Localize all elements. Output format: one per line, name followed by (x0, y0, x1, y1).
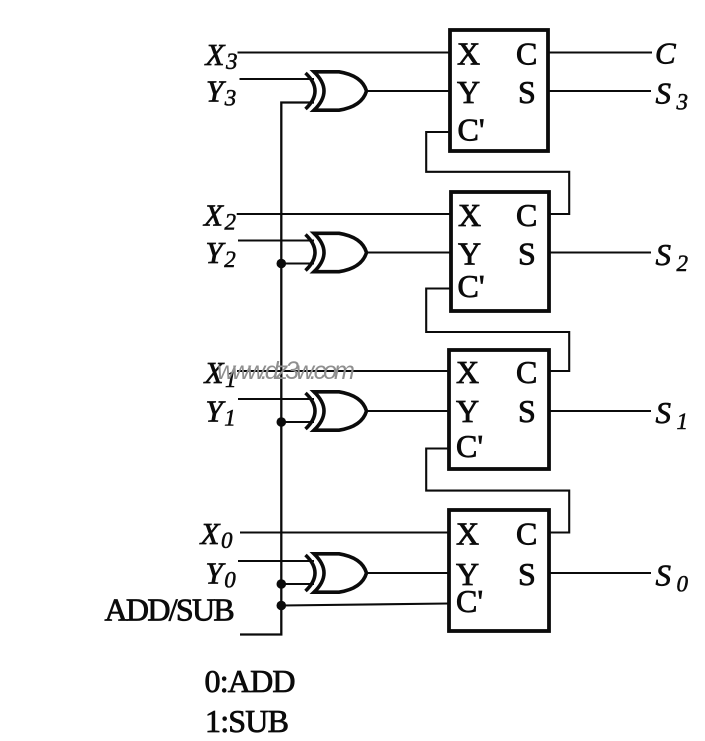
svg-text:Y: Y (457, 74, 480, 110)
wire X2 input (237, 213, 451, 215)
xor gate G3 (306, 392, 367, 430)
wire ADD/SUB rail (240, 103, 314, 635)
svg-text:Y: Y (458, 236, 481, 272)
wire S0 output (549, 572, 651, 574)
wire C output (548, 51, 652, 53)
full adder U1 box (450, 30, 548, 151)
wire G4 output to U4.Y (366, 572, 449, 574)
svg-text:Y: Y (456, 393, 479, 429)
svg-text:S: S (518, 556, 536, 592)
wire rail to U4 C' input (281, 604, 449, 606)
svg-text:S: S (518, 393, 536, 429)
svg-text:S: S (518, 236, 536, 272)
svg-text:C: C (516, 354, 537, 390)
svg-text:X: X (457, 36, 480, 72)
svg-text:C: C (516, 516, 537, 552)
wire Y0 input (238, 560, 314, 562)
node rail-G4 junction (277, 579, 287, 589)
wire G1 output to U1.Y (366, 90, 450, 92)
wire U2.C to U1.C' carry (426, 132, 569, 214)
full adder U4 box (449, 510, 549, 631)
wire Y2 input (238, 239, 314, 241)
wire S1 output (549, 410, 651, 412)
svg-text:S: S (518, 74, 536, 110)
wire Y3 input (240, 78, 315, 80)
xor gate G1 (306, 72, 367, 110)
xor gate G2 (306, 233, 367, 271)
svg-text:C': C' (456, 583, 483, 619)
svg-text:0:ADD: 0:ADD (205, 663, 295, 699)
svg-text:ADD/SUB: ADD/SUB (105, 592, 234, 628)
node rail-C' junction (277, 601, 287, 611)
wire G3 lower input stub (281, 421, 314, 423)
wire U4.C to U3.C' carry (426, 449, 569, 533)
svg-text:1:SUB: 1:SUB (205, 703, 288, 739)
wire G4 lower input stub (281, 583, 314, 585)
svg-text:www.dz3w.com: www.dz3w.com (217, 357, 354, 385)
wire S3 output (548, 90, 651, 92)
xor gate G4 (306, 554, 367, 592)
full adder U2 box (451, 192, 549, 311)
wire S2 output (549, 251, 651, 253)
svg-text:X: X (458, 197, 481, 233)
node rail-G2 junction (277, 259, 287, 269)
full adder U3 box (449, 350, 549, 469)
svg-text:C: C (516, 197, 537, 233)
svg-text:X: X (456, 516, 479, 552)
node rail-G3 junction (277, 417, 287, 427)
wire Y1 input (238, 398, 314, 400)
svg-text:C': C' (456, 428, 483, 464)
wire G3 output to U3.Y (366, 410, 449, 412)
svg-text:C: C (516, 36, 537, 72)
wire X1 input (237, 370, 449, 372)
svg-text:C': C' (458, 112, 485, 148)
wire G2 output to U2.Y (366, 251, 451, 253)
svg-text:X: X (456, 354, 479, 390)
wire X0 input (240, 531, 449, 533)
wire X3 input (238, 51, 451, 53)
wire G2 lower input stub (281, 262, 314, 264)
wire U3.C to U2.C' carry (426, 289, 569, 372)
svg-text:C: C (655, 36, 676, 71)
svg-text:C': C' (458, 268, 485, 304)
